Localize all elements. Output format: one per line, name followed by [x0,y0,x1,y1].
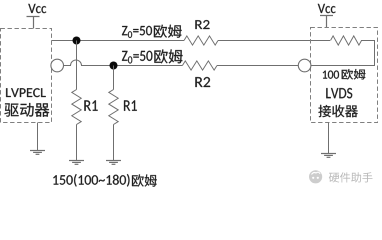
wire R1-1 to ground [76,125,78,161]
label LVDS [326,88,352,98]
label Z0=50 ohm (top) [122,25,182,38]
driver output pin circle [51,59,64,72]
label 150(100~180) ohm [53,174,157,187]
label LVPECL [6,88,46,97]
power symbol Vcc (left) [27,17,40,29]
Vcc label (left) [28,4,46,13]
wire R1-2 to ground [113,125,115,161]
wire driver box to ground [37,123,39,151]
label R2 (top) [195,20,209,29]
power symbol Vcc (right) [320,16,333,28]
resistor R1 #1 [72,90,81,125]
LVDS receiver box [311,28,378,123]
resistor 100 ohm termination [331,36,362,45]
junction dot node B [110,62,118,70]
LVPECL driver box [1,29,52,123]
junction dot node A [73,37,81,45]
label Z0=50 ohm (bottom) [122,49,183,63]
resistor R2 (bottom) [182,61,217,70]
ground (R1 #1) [69,160,84,162]
Vcc label (right) [318,4,336,13]
label R2 (bottom) [195,77,210,87]
resistor R1 #2 [109,90,118,125]
receiver input pin circle [298,59,311,72]
ground (R1 #2) [106,160,121,162]
wire line2 with hop over R1 wire [63,60,182,66]
resistor R2 (top) [184,36,218,45]
label 驱动器 [5,103,50,117]
ground (receiver) [321,153,336,155]
wire top line R2 to receiver box [218,40,330,42]
wire termination loop [311,41,375,66]
wire receiver box to ground [328,123,330,154]
label 100 ohm [323,69,366,80]
wire node A down to R1-1 [76,41,78,90]
watermark logo [309,170,322,183]
ground (driver) [30,150,45,152]
wire top line driver to R2 [52,40,185,42]
label R1 (left) [84,100,97,110]
watermark text 硬件助手 [329,172,373,182]
wire node B down to R1-2 [113,66,115,90]
label 接收器 [319,105,358,117]
wire line2 R2 to receiver circle [217,65,299,67]
label R1 (right) [124,100,137,110]
